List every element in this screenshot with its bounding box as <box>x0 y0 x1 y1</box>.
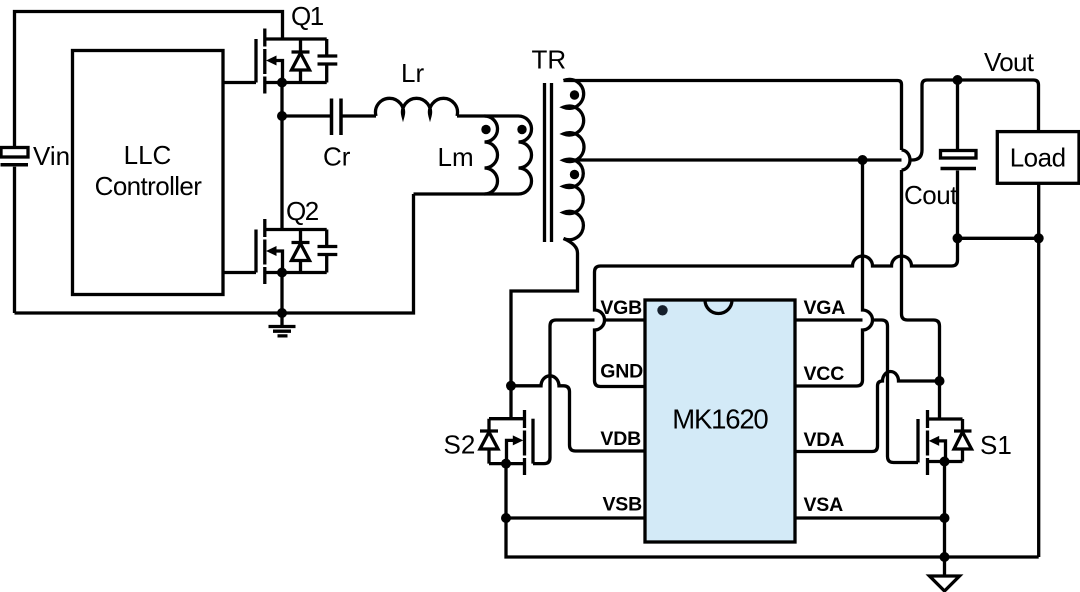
svg-text:VSB: VSB <box>603 494 643 516</box>
svg-text:VSA: VSA <box>804 494 844 516</box>
svg-text:VCC: VCC <box>804 363 845 385</box>
svg-text:Q1: Q1 <box>291 1 324 31</box>
svg-text:Controller: Controller <box>95 171 203 201</box>
svg-text:Cr: Cr <box>323 142 351 172</box>
svg-text:S1: S1 <box>980 430 1012 460</box>
svg-text:GND: GND <box>600 361 643 383</box>
svg-text:TR: TR <box>532 45 567 75</box>
svg-text:S2: S2 <box>444 430 476 460</box>
svg-text:Lr: Lr <box>401 58 424 88</box>
svg-text:Vout: Vout <box>984 47 1035 77</box>
svg-text:Cout: Cout <box>904 180 958 210</box>
svg-text:Lm: Lm <box>438 142 474 172</box>
svg-text:VGB: VGB <box>600 297 642 319</box>
svg-text:Q2: Q2 <box>286 196 319 226</box>
svg-text:MK1620: MK1620 <box>672 404 768 435</box>
svg-text:VGA: VGA <box>804 297 846 319</box>
svg-text:VDA: VDA <box>804 429 845 451</box>
svg-text:Vin: Vin <box>33 141 70 171</box>
svg-text:LLC: LLC <box>124 140 172 170</box>
svg-text:VDB: VDB <box>600 428 641 450</box>
svg-text:Load: Load <box>1010 143 1066 173</box>
